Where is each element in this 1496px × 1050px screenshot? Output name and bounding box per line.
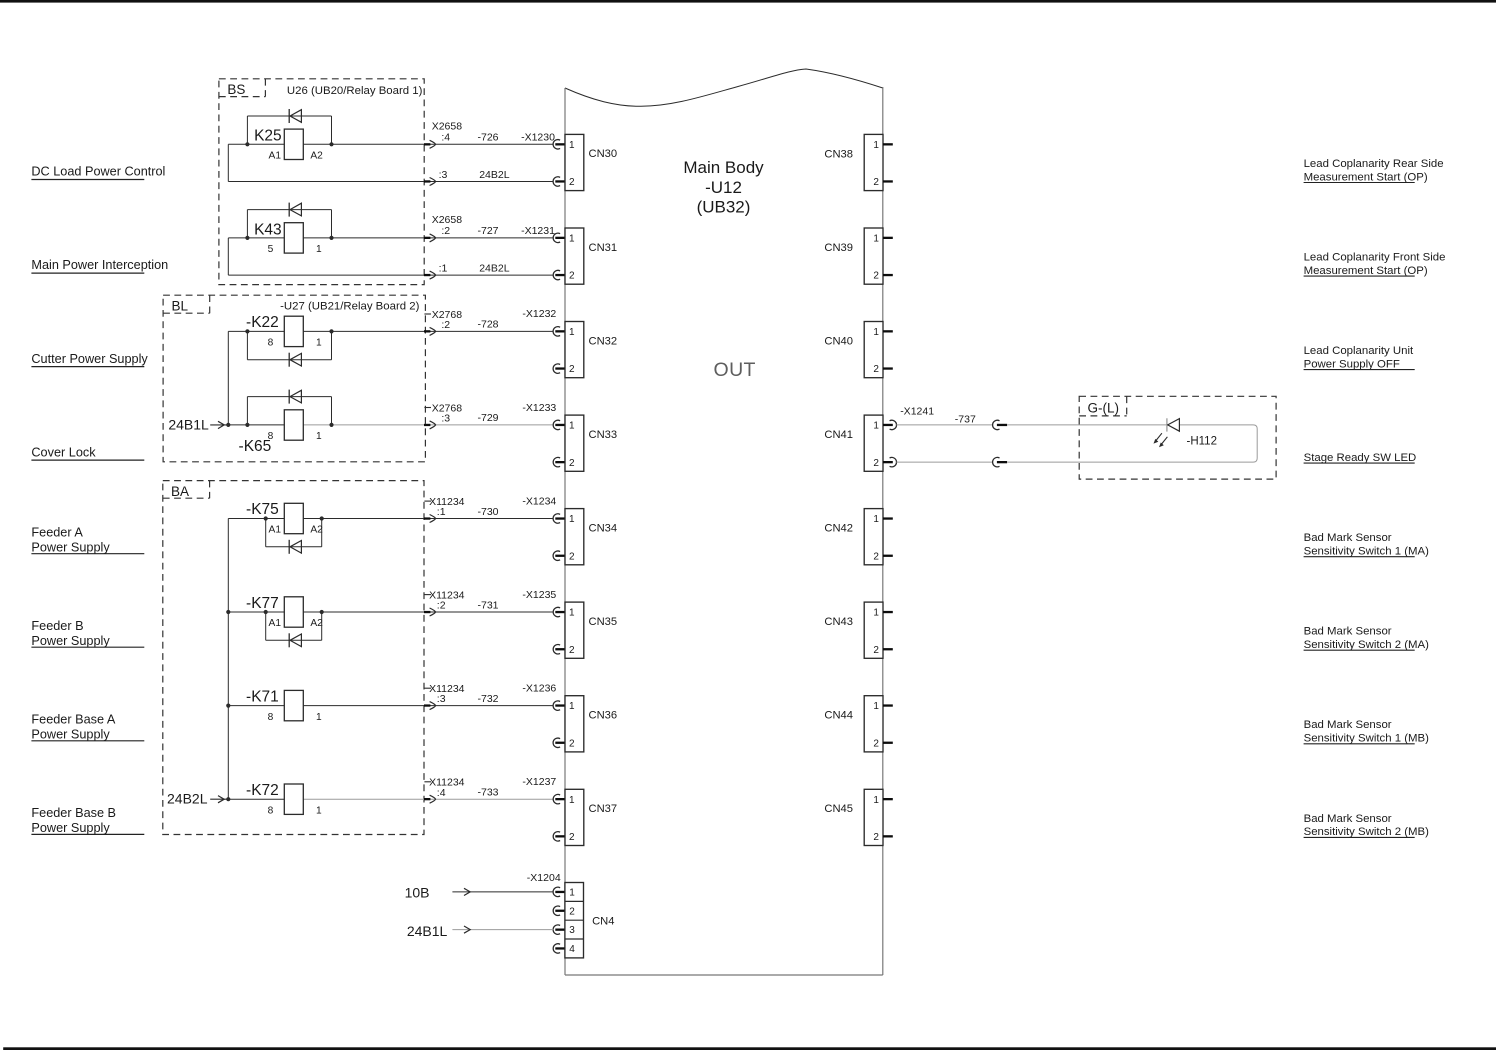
label -H112 [1187,436,1217,448]
svg-text:3: 3 [569,925,575,936]
label -X1232 [522,308,556,320]
svg-text:BA: BA [171,484,189,499]
svg-text:Feeder Base B: Feeder Base B [31,806,116,820]
wire -729 (row CN33) [228,424,553,426]
svg-text:Cutter Power Supply: Cutter Power Supply [31,352,148,366]
svg-text:2: 2 [569,645,575,656]
svg-text:CN43: CN43 [824,616,853,628]
svg-text:Feeder B: Feeder B [31,619,83,633]
svg-text:Power Supply: Power Supply [31,821,110,835]
svg-text:CN37: CN37 [589,803,618,815]
left label: Feeder Base B Power Supply [31,806,144,835]
label BS [227,82,245,97]
svg-text:Sensitivity Switch 2 (MB): Sensitivity Switch 2 (MB) [1304,826,1430,838]
svg-text:24B2L: 24B2L [479,169,510,181]
label -X1231 [521,225,555,237]
connector CN35 [565,602,617,658]
svg-text:-X1233: -X1233 [522,402,556,414]
wire -726 (row CN30) [228,144,553,181]
svg-text:2: 2 [873,551,879,562]
wire -727 (row CN31) [228,238,553,275]
svg-text:CN32: CN32 [589,335,618,347]
label X2658 :2 [432,214,463,237]
relay K77 coil [246,595,323,629]
svg-text:2: 2 [873,832,879,843]
svg-text:Sensitivity Switch 1 (MB): Sensitivity Switch 1 (MB) [1304,733,1430,745]
connector CN36 [565,696,617,752]
connector X1230 socket pin 1 [553,140,565,149]
connector CN41 [824,415,892,471]
svg-text:-727: -727 [478,225,499,237]
svg-text:24B2L: 24B2L [479,263,510,275]
svg-text:8: 8 [268,338,274,349]
svg-text:X11234: X11234 [429,683,465,695]
svg-text:-X1232: -X1232 [522,308,556,320]
svg-text:CN41: CN41 [824,429,853,441]
svg-text:-K75: -K75 [246,501,279,518]
svg-text:2: 2 [873,271,879,282]
wire -728 (row CN32) [228,330,553,332]
label -731 [478,599,499,611]
right label: Bad Mark Sensor Sensitivity Switch 1 (MB) [1304,719,1430,744]
svg-text::2: :2 [441,225,450,237]
svg-text:BL: BL [172,299,189,314]
connector X1234 socket pin 2 [553,551,565,560]
svg-text::2: :2 [441,319,450,331]
right label: Bad Mark Sensor Sensitivity Switch 2 (MB) [1304,813,1430,838]
relay board U26 (UB20/Relay Board 1) dashed box BS [219,79,424,285]
svg-text:2: 2 [569,458,575,469]
connector CN39 [824,228,892,284]
board edge crossing X11234:4 [424,795,436,803]
connector CN45 [824,789,892,845]
svg-text:-X1237: -X1237 [522,776,556,788]
connector X1234 socket pin 1 [553,514,565,523]
connector X1237 socket pin 2 [553,832,565,841]
svg-text:-731: -731 [478,599,499,611]
wire 10B to CN4 pin 1 [405,885,554,901]
label X11234 :3 [424,683,464,705]
right label: Lead Coplanarity Unit Power Supply OFF [1304,345,1415,370]
junction dots K75 [264,516,324,520]
connector CN4 [565,883,615,958]
svg-text:1: 1 [316,338,322,349]
svg-text:Sensitivity Switch 2 (MA): Sensitivity Switch 2 (MA) [1304,639,1430,651]
label -729 [478,412,499,424]
svg-text:Cover Lock: Cover Lock [31,445,96,459]
connector socket on -737 pin2 [993,457,1008,466]
connector X1233 socket pin 1 [553,420,565,429]
flyback diode of K43 [247,203,331,238]
label BL [172,299,189,314]
connector X1236 socket pin 1 [553,701,565,710]
svg-text:BS: BS [227,82,245,97]
svg-text:-X1234: -X1234 [522,495,556,507]
svg-text:Measurement Start (OP): Measurement Start (OP) [1304,265,1428,277]
flyback diode of K25 [247,109,331,144]
wire 24B1L to CN4 pin 3 [407,923,554,939]
svg-text:1: 1 [873,795,879,806]
flyback diode of K75 [266,519,322,554]
connector X1235 socket pin 2 [553,645,565,654]
label -X1237 [522,776,556,788]
main body title -U12 (UB32) [683,158,764,217]
connector CN40 [824,322,892,378]
wire 24B1L bus (BL) [227,331,229,425]
svg-text::3: :3 [441,413,450,425]
left label: DC Load Power Control [31,165,165,180]
junction dots K65 [245,423,333,427]
svg-text:2: 2 [569,177,575,188]
svg-text:-733: -733 [478,787,499,799]
svg-text:X11234: X11234 [429,496,465,508]
label -X1230 [521,132,555,144]
svg-text:-X1235: -X1235 [522,589,556,601]
svg-text::3: :3 [437,693,446,705]
label -728 [478,319,499,331]
label X11234 :1 [424,496,464,518]
svg-text:CN42: CN42 [824,523,853,535]
main body -U12 (UB32) outline [565,69,883,975]
label -727 [478,225,499,237]
svg-text:2: 2 [569,906,575,917]
node 24B1L entry [168,417,230,433]
svg-text:CN40: CN40 [824,335,853,347]
svg-text::4: :4 [441,132,450,144]
svg-text:4: 4 [569,944,575,955]
svg-text:Power Supply OFF: Power Supply OFF [1304,358,1400,370]
connector CN32 [565,322,617,378]
junction dots K77 [264,610,324,614]
connector CN42 [824,509,892,565]
right label: Stage Ready SW LED [1304,452,1417,464]
connector socket on -737 pin1 [993,420,1008,429]
svg-text:Sensitivity Switch 1 (MA): Sensitivity Switch 1 (MA) [1304,546,1430,558]
board edge crossing X2658:4 [424,140,436,185]
svg-text:A2: A2 [310,151,323,162]
svg-text:1: 1 [569,701,575,712]
svg-text:(UB32): (UB32) [697,198,751,217]
svg-text::3: :3 [439,169,448,181]
svg-text:-730: -730 [478,506,499,518]
svg-text:1: 1 [569,234,575,245]
svg-text::1: :1 [437,506,446,518]
label -737 [955,413,976,425]
svg-text:1: 1 [873,514,879,525]
svg-text:1: 1 [873,701,879,712]
svg-text:2: 2 [569,738,575,749]
dashed box G-(L) [1079,396,1276,479]
svg-text:2: 2 [569,551,575,562]
svg-text:-726: -726 [478,132,499,144]
svg-text:CN45: CN45 [824,803,853,815]
wire -737 pin1 [896,424,992,426]
svg-text:2: 2 [873,645,879,656]
svg-text:1: 1 [873,608,879,619]
label -732 [478,693,499,705]
junction dots K25 [245,142,333,146]
svg-text::4: :4 [437,787,446,799]
svg-text:Measurement Start (OP): Measurement Start (OP) [1304,171,1428,183]
svg-text:-K22: -K22 [246,314,279,331]
svg-text:Main Body: Main Body [683,158,764,177]
connector X1232 socket pin 2 [553,364,565,373]
svg-text:CN33: CN33 [589,429,618,441]
svg-text:2: 2 [873,364,879,375]
relay board -U27 (UB21/Relay Board 2) dashed box BL [163,295,425,462]
wire -731 (row CN35) [228,611,553,613]
connector X1241 plug pins (CN41) [890,420,897,467]
svg-text:-732: -732 [478,693,499,705]
svg-text:Bad Mark Sensor: Bad Mark Sensor [1304,626,1392,638]
relay K43 coil [254,221,322,255]
svg-text:U26 (UB20/Relay Board 1): U26 (UB20/Relay Board 1) [287,85,423,97]
svg-text:CN35: CN35 [589,616,618,628]
label :1 24B2L [439,263,510,275]
svg-text:DC Load Power Control: DC Load Power Control [31,165,165,179]
dashed box BA [163,481,424,835]
label -X1204 [527,872,561,884]
label U26 (UB20/Relay Board 1) [287,85,423,97]
label -X1236 [522,682,556,694]
left label: Feeder Base A Power Supply [31,713,144,742]
connector CN30 [565,134,617,190]
connector X1231 socket pin 1 [553,233,565,242]
svg-text:1: 1 [873,421,879,432]
label -X1234 [522,495,556,507]
label :3 24B2L [439,169,510,181]
label X2658 :4 [432,120,463,143]
label X2768 :3 [424,402,462,424]
label BA [171,484,189,499]
svg-text:8: 8 [268,431,274,442]
svg-text:CN34: CN34 [589,522,618,534]
left label: Feeder A Power Supply [31,525,144,554]
svg-text:-X1236: -X1236 [522,682,556,694]
connector X1233 socket pin 2 [553,457,565,466]
connector X1237 socket pin 1 [553,794,565,803]
wire -732 (row CN36) [228,705,553,707]
svg-text::2: :2 [437,600,446,612]
label -730 [478,506,499,518]
label -U27 (UB21/Relay Board 2) [280,301,419,313]
label X11234 :2 [424,589,464,611]
svg-text:OUT: OUT [714,359,756,381]
LED -H112 [1154,418,1180,447]
wire -733 (row CN37) [228,798,553,800]
left label: Main Power Interception [31,258,168,273]
svg-text:Bad Mark Sensor: Bad Mark Sensor [1304,532,1392,544]
svg-text:1: 1 [569,514,575,525]
label X2768 :2 [424,309,462,331]
svg-text:X2658: X2658 [432,120,463,132]
relay K25 coil [254,128,323,162]
svg-text:1: 1 [873,327,879,338]
svg-text:1: 1 [316,712,322,723]
connector CN44 [824,696,892,752]
left label: Feeder B Power Supply [31,619,144,648]
svg-text:CN36: CN36 [589,710,618,722]
svg-text:X11234: X11234 [429,777,465,789]
svg-text:1: 1 [873,140,879,151]
svg-text:-K71: -K71 [246,688,279,705]
svg-text:Lead Coplanarity Unit: Lead Coplanarity Unit [1304,345,1414,357]
svg-text:X2658: X2658 [432,214,463,226]
svg-text:Lead Coplanarity Rear Side: Lead Coplanarity Rear Side [1304,158,1444,170]
svg-text:-U12: -U12 [705,178,742,197]
svg-text:1: 1 [569,795,575,806]
svg-text:1: 1 [569,421,575,432]
svg-text:Power Supply: Power Supply [31,728,110,742]
flyback diode of K22 [247,331,331,366]
wire 24B2L bus (BA) [226,519,230,800]
right label: Lead Coplanarity Rear Side Measurement Start (OP) [1304,158,1444,183]
svg-text:1: 1 [873,234,879,245]
label X11234 :4 [424,777,464,799]
connector X1230 socket pin 2 [553,177,565,186]
svg-text:1: 1 [569,608,575,619]
svg-text:CN44: CN44 [824,710,853,722]
board edge crossing X11234:2 [424,608,436,616]
svg-text::1: :1 [439,263,448,275]
svg-text:2: 2 [873,738,879,749]
board edge crossing X2658:2 [424,234,436,279]
relay K65 coil [239,410,322,455]
connector X1235 socket pin 1 [553,607,565,616]
wire -737 pin2 [896,461,992,463]
right label: Bad Mark Sensor Sensitivity Switch 1 (MA) [1304,532,1430,557]
svg-text:A1: A1 [269,618,282,629]
svg-text:2: 2 [873,177,879,188]
svg-text:Power Supply: Power Supply [31,540,110,554]
svg-text:-X1230: -X1230 [521,132,555,144]
svg-text:Lead Coplanarity Front Side: Lead Coplanarity Front Side [1304,251,1446,263]
relay K71 coil [246,688,322,723]
connector CN31 [565,228,617,284]
svg-text:CN39: CN39 [824,242,853,254]
flyback diode of K65 [247,390,331,425]
svg-text:8: 8 [268,712,274,723]
connector X1231 socket pin 2 [553,270,565,279]
junction dots K22 [245,329,333,333]
svg-text:-H112: -H112 [1187,436,1217,448]
svg-text:24B1L: 24B1L [407,923,448,939]
svg-text:-X1241: -X1241 [900,406,934,418]
label -726 [478,132,499,144]
flyback diode of K77 [266,612,322,647]
svg-text:2: 2 [569,364,575,375]
svg-text:Feeder Base A: Feeder Base A [31,713,115,727]
relay K75 coil [246,501,323,536]
svg-text:8: 8 [268,805,274,816]
svg-text:CN30: CN30 [589,148,618,160]
svg-text:G-(L): G-(L) [1088,401,1120,416]
board edge crossing X11234:3 [424,702,436,710]
svg-text:-X1231: -X1231 [521,225,555,237]
left label: Cover Lock [31,445,144,460]
svg-text:1: 1 [316,805,322,816]
svg-text:A1: A1 [269,151,282,162]
label -X1241 [900,406,934,418]
right label: Bad Mark Sensor Sensitivity Switch 2 (MA) [1304,626,1430,651]
svg-text:-K72: -K72 [246,782,279,799]
svg-text:2: 2 [569,832,575,843]
svg-text:24B1L: 24B1L [168,417,209,433]
svg-text:-728: -728 [478,319,499,331]
svg-text:5: 5 [268,244,274,255]
svg-text:1: 1 [569,140,575,151]
OUT label [714,359,756,381]
svg-text:K25: K25 [254,128,282,145]
svg-text:Bad Mark Sensor: Bad Mark Sensor [1304,813,1392,825]
connector CN38 [824,134,892,190]
svg-text:10B: 10B [405,885,430,901]
label G-(L) [1088,401,1120,416]
node 24B2L entry [167,791,230,807]
svg-text:2: 2 [569,271,575,282]
connector X1236 socket pin 2 [553,738,565,747]
connector X1232 socket pin 1 [553,327,565,336]
svg-text:-K77: -K77 [246,595,279,612]
label -X1233 [522,402,556,414]
connector X1204 sockets [553,887,565,953]
board edge crossing X11234:1 [424,515,436,523]
svg-text:K43: K43 [254,221,282,238]
board edge crossing X2768:2 [424,327,436,335]
right label: Lead Coplanarity Front Side Measurement Start (OP) [1304,251,1446,277]
svg-text:1: 1 [569,888,575,899]
svg-text:X11234: X11234 [429,589,465,601]
svg-text:-737: -737 [955,413,976,425]
connector CN33 [565,415,617,471]
svg-text:24B2L: 24B2L [167,791,208,807]
svg-text:Main Power Interception: Main Power Interception [31,258,168,272]
svg-text:CN31: CN31 [589,242,618,254]
label -X1235 [522,589,556,601]
svg-text:Power Supply: Power Supply [31,634,110,648]
junction dots K43 [245,236,333,240]
svg-text:-U27 (UB21/Relay Board 2): -U27 (UB21/Relay Board 2) [280,301,419,313]
svg-text:1: 1 [316,244,322,255]
relay K22 coil [246,314,322,349]
svg-text:Feeder A: Feeder A [31,525,83,539]
svg-text:1: 1 [569,327,575,338]
label -733 [478,787,499,799]
svg-text:1: 1 [316,431,322,442]
svg-text:Bad Mark Sensor: Bad Mark Sensor [1304,719,1392,731]
board edge crossing X2768:3 [424,421,436,429]
svg-text:-729: -729 [478,412,499,424]
wire LED loop [1007,425,1257,462]
svg-text:CN4: CN4 [592,915,614,927]
relay K72 coil [246,782,322,817]
connector CN37 [565,789,617,845]
svg-text:Stage Ready SW LED: Stage Ready SW LED [1304,452,1417,464]
left label: Cutter Power Supply [31,352,148,367]
svg-text:-K65: -K65 [239,438,272,455]
wire -730 (row CN34) [228,518,553,520]
connector CN43 [824,602,892,658]
svg-text:-X1204: -X1204 [527,872,561,884]
svg-text:A1: A1 [269,525,282,536]
svg-text:2: 2 [873,458,879,469]
connector CN34 [565,509,617,565]
svg-text:CN38: CN38 [824,148,853,160]
